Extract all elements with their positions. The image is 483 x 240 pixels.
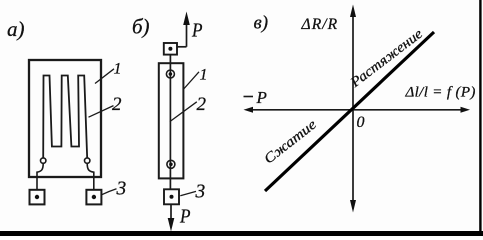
meander wire grid (panel a, part 2) [43, 76, 87, 159]
vertical axis top arrowhead [350, 5, 356, 18]
left lead wire [37, 163, 43, 189]
svg-text:ΔR/R: ΔR/R [301, 16, 339, 33]
right terminal dot [92, 195, 96, 199]
svg-text:Р: Р [191, 20, 202, 42]
svg-text:1: 1 [114, 61, 122, 78]
left terminal square (part 3) [30, 190, 45, 205]
upper contact square [164, 43, 177, 55]
sensing wire (panel b, part 2) [169, 55, 171, 190]
leader line to label 3 (panel a) [102, 189, 117, 195]
right lead wire [87, 163, 94, 189]
upper arrowhead [183, 12, 190, 26]
upper square dot [168, 47, 172, 51]
lower contact square (panel b, part 3) [164, 189, 179, 204]
svg-text:б): б) [132, 15, 150, 39]
svg-text:в): в) [254, 13, 269, 34]
svg-text:2: 2 [112, 94, 122, 115]
right terminal square (part 3) [86, 190, 101, 205]
horizontal axis right arrowhead [461, 107, 471, 113]
vertical axis bottom arrowhead [350, 200, 356, 213]
vertical axis (panel v) [352, 15, 354, 202]
leader line to label 2 (panel a) [89, 106, 114, 118]
svg-text:3: 3 [195, 182, 206, 203]
right border line [479, 0, 481, 236]
svg-text:Р: Р [179, 206, 190, 228]
upper solder dot [169, 72, 173, 76]
wire jog from upper square to arrow [177, 46, 187, 48]
svg-text:0: 0 [357, 114, 365, 131]
svg-text:а): а) [7, 17, 25, 41]
leader line to label 1 (panel a) [95, 69, 114, 84]
leader line to label 2 (panel b) [170, 102, 197, 122]
left solder tab circle [41, 158, 46, 163]
minus sign of -P [244, 96, 254, 98]
lower force arrow line (panel b) [170, 204, 172, 220]
bottom black band [0, 231, 483, 236]
lower solder dot [169, 163, 173, 167]
svg-text:Р: Р [256, 88, 267, 107]
characteristic line (tension/compression) [265, 32, 434, 191]
lower square dot [170, 195, 174, 199]
upper solder circle (panel b) [166, 70, 174, 78]
horizontal axis left arrowhead [244, 107, 254, 113]
gauge strip rectangle (panel b, part 1) [159, 63, 184, 178]
lower solder circle (panel b) [167, 160, 175, 168]
horizontal axis (panel v) [251, 109, 462, 111]
svg-text:Сжатие: Сжатие [262, 117, 320, 167]
upper force arrow line (panel b) [186, 23, 188, 47]
leader line to label 1 (panel b) [184, 72, 199, 89]
right solder tab circle [85, 158, 90, 163]
svg-text:2: 2 [197, 94, 207, 115]
gauge base rectangle (panel a, part 1) [29, 60, 101, 177]
left terminal dot [35, 195, 39, 199]
svg-text:1: 1 [200, 67, 208, 84]
svg-text:Растяжение: Растяжение [347, 27, 425, 92]
svg-text:Δl/l = f (Р): Δl/l = f (Р) [405, 85, 476, 101]
leader line to label 3 (panel b) [180, 191, 196, 195]
lower arrowhead [168, 218, 175, 232]
svg-text:3: 3 [116, 179, 127, 200]
